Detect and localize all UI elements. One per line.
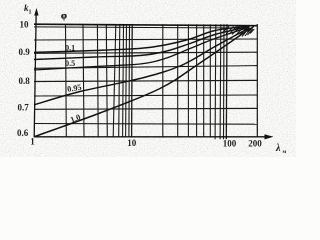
horizontal major gridlines 0.9 0.8 0.7 [34, 52, 257, 109]
vertical minor gridlines decade 2 [163, 24, 224, 139]
curve unlabeled [34, 27, 250, 70]
scan speckle [0, 0, 1, 1]
top border (k=1.0), doubled scan line [34, 24, 257, 26]
vertical major gridline x=10 [131, 24, 134, 137]
curve 0.5 [34, 26, 250, 59]
horizontal minor gridlines [34, 39, 257, 124]
curve 0.95 [34, 28, 250, 105]
hatching at convergence [222, 27, 254, 37]
y axis with arrow [34, 11, 36, 137]
curve 0.1 [34, 26, 250, 53]
vertical minor gridlines decade 1 [66, 24, 127, 137]
curve 1.0 [34, 29, 250, 137]
right border (λ=200) [256, 24, 258, 137]
x axis with arrow [34, 136, 266, 138]
vertical major gridline x=100 [225, 24, 228, 139]
